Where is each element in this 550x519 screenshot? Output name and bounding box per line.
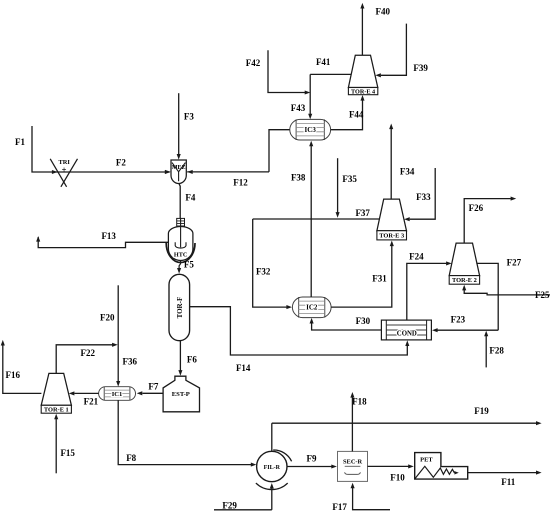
svg-text:F37: F37	[355, 208, 370, 218]
svg-text:F35: F35	[342, 174, 357, 184]
svg-text:TOR-F: TOR-F	[176, 297, 184, 319]
svg-text:FIL-R: FIL-R	[264, 465, 281, 471]
svg-text:F8: F8	[126, 453, 136, 463]
svg-text:F1: F1	[15, 137, 25, 147]
svg-text:F7: F7	[148, 382, 158, 392]
svg-text:F14: F14	[236, 363, 251, 373]
svg-text:F38: F38	[291, 172, 306, 182]
svg-text:SEC-R: SEC-R	[343, 459, 363, 466]
svg-text:TOR-E 3: TOR-E 3	[379, 233, 404, 240]
svg-text:F26: F26	[469, 203, 484, 213]
svg-text:F17: F17	[332, 502, 347, 512]
svg-text:F28: F28	[489, 346, 504, 356]
svg-text:PET: PET	[420, 457, 433, 464]
svg-text:F30: F30	[356, 316, 371, 326]
svg-text:F29: F29	[222, 500, 237, 510]
svg-text:F13: F13	[101, 231, 116, 241]
svg-text:F10: F10	[390, 473, 405, 483]
svg-text:F42: F42	[246, 58, 261, 68]
svg-text:F41: F41	[316, 57, 331, 67]
svg-text:IC1: IC1	[112, 391, 123, 398]
svg-text:F5: F5	[184, 260, 194, 270]
svg-text:F36: F36	[123, 357, 138, 367]
svg-text:F44: F44	[349, 110, 364, 120]
svg-text:TOR-E 4: TOR-E 4	[351, 88, 375, 95]
svg-text:F18: F18	[352, 396, 367, 406]
svg-text:F2: F2	[116, 157, 126, 167]
svg-text:F6: F6	[187, 354, 197, 364]
svg-text:COND: COND	[397, 331, 417, 338]
svg-text:F24: F24	[409, 252, 424, 262]
svg-text:TOR-E 1: TOR-E 1	[44, 407, 69, 414]
svg-text:F43: F43	[291, 103, 306, 113]
svg-text:F12: F12	[233, 178, 248, 188]
svg-text:F23: F23	[451, 315, 466, 325]
svg-text:F21: F21	[84, 397, 99, 407]
svg-text:F25: F25	[535, 290, 550, 300]
svg-text:F11: F11	[501, 477, 516, 487]
svg-text:HTC: HTC	[174, 251, 187, 258]
svg-text:IC2: IC2	[306, 304, 318, 312]
svg-text:F34: F34	[400, 166, 415, 176]
svg-text:F4: F4	[185, 193, 195, 203]
svg-text:+: +	[62, 164, 67, 174]
svg-text:F16: F16	[6, 370, 21, 380]
svg-text:F33: F33	[416, 192, 431, 202]
svg-text:F39: F39	[413, 63, 428, 73]
svg-text:F22: F22	[81, 348, 96, 358]
svg-text:F15: F15	[60, 448, 75, 458]
svg-text:F20: F20	[100, 312, 115, 322]
svg-text:F31: F31	[372, 273, 387, 283]
svg-text:F32: F32	[256, 266, 271, 276]
svg-text:F9: F9	[307, 453, 317, 463]
svg-text:IC3: IC3	[305, 126, 317, 134]
svg-text:F40: F40	[376, 7, 391, 17]
svg-text:TOR-E 2: TOR-E 2	[452, 277, 477, 284]
svg-text:F19: F19	[474, 406, 489, 416]
svg-text:EST-P: EST-P	[172, 391, 190, 398]
svg-text:F27: F27	[507, 257, 522, 267]
svg-text:F3: F3	[184, 112, 194, 122]
